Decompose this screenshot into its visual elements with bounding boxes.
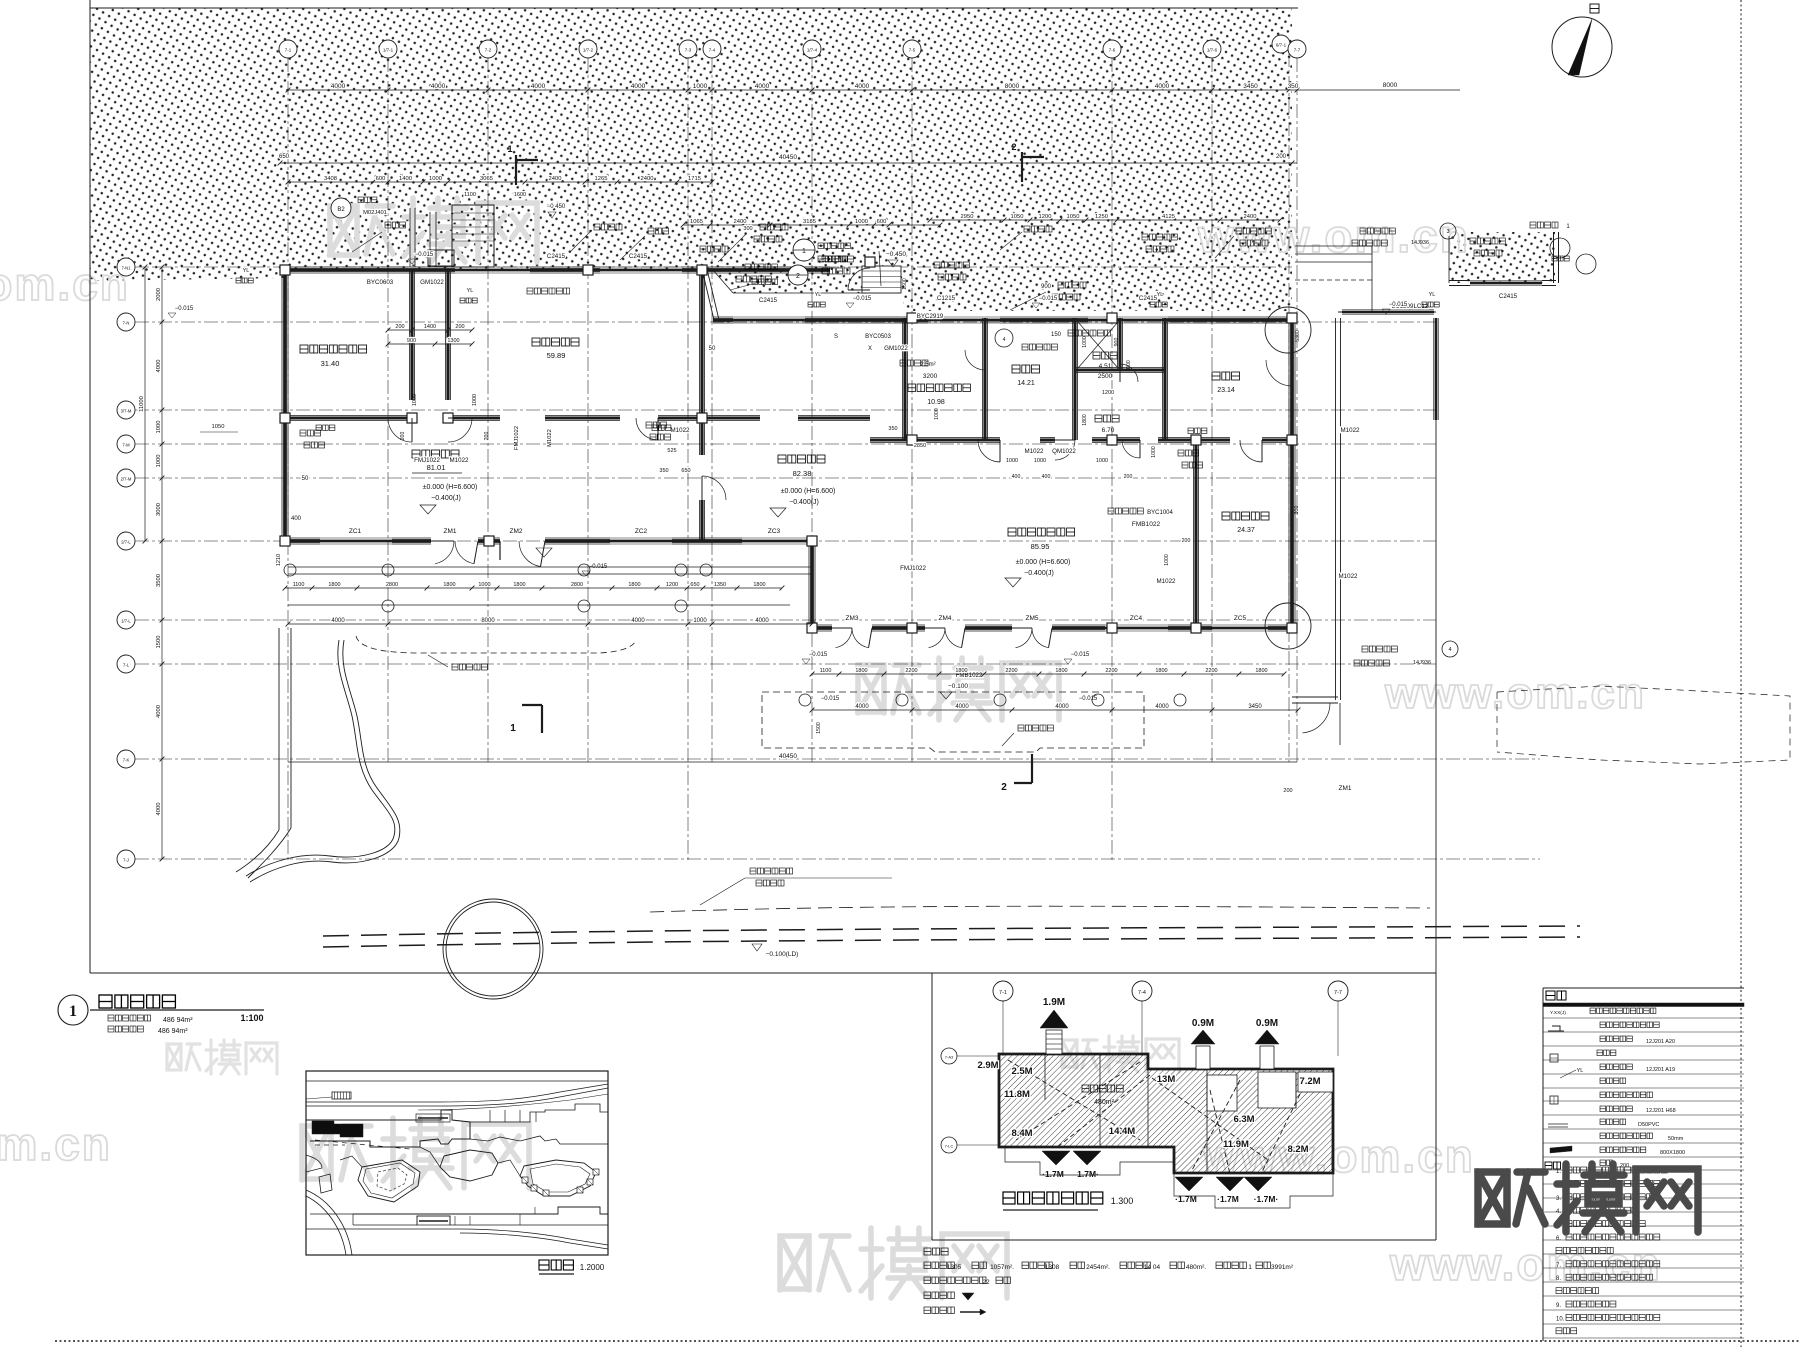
svg-text:2200: 2200 bbox=[1105, 668, 1117, 674]
site plan bottom road curves bbox=[460, 1229, 608, 1245]
svg-text:ZM2: ZM2 bbox=[510, 528, 523, 535]
watermark omwang near title bbox=[167, 1040, 277, 1074]
roof projection label right bbox=[1018, 725, 1053, 731]
svg-text:200: 200 bbox=[1276, 154, 1287, 160]
svg-text:GM1022: GM1022 bbox=[884, 345, 908, 352]
svg-text:1/7-2: 1/7-2 bbox=[583, 48, 594, 53]
svg-text:FMJ1022: FMJ1022 bbox=[514, 426, 520, 450]
svg-text:6.3M: 6.3M bbox=[1233, 1114, 1254, 1125]
left vertical dim 11000 bbox=[144, 267, 146, 541]
svg-text:2800: 2800 bbox=[386, 582, 398, 588]
fire diagram frame bbox=[931, 973, 933, 1240]
svg-text:4: 4 bbox=[1448, 647, 1451, 653]
svg-text:11.8M: 11.8M bbox=[1004, 1089, 1030, 1100]
south wall left block with windows and doors bbox=[285, 537, 320, 539]
annotation deformation joint 4 lower bbox=[1362, 646, 1397, 652]
svg-text:11.9M: 11.9M bbox=[1223, 1139, 1249, 1150]
vestibule detail bubbles bbox=[793, 239, 815, 261]
site plan dashed strip bbox=[315, 1140, 410, 1149]
svg-text:40450: 40450 bbox=[779, 753, 797, 760]
svg-text:M1022: M1022 bbox=[450, 457, 469, 464]
top dimension chain 4000s bbox=[288, 89, 1297, 91]
svg-text:486 94m²: 486 94m² bbox=[163, 1017, 193, 1024]
svg-text:1000: 1000 bbox=[1006, 458, 1018, 464]
svg-text:3.: 3. bbox=[1556, 1196, 1561, 1202]
svg-text:FMJ1022: FMJ1022 bbox=[900, 565, 926, 572]
watermark omwang bottom center bbox=[780, 1228, 1007, 1298]
svg-text:7-7: 7-7 bbox=[1334, 990, 1342, 996]
watermark omwang fire diagram bbox=[1062, 1036, 1179, 1072]
svg-text:2.5m²: 2.5m² bbox=[920, 362, 935, 368]
detail circle top-right corner bbox=[1265, 307, 1311, 353]
pocket alcove walls bbox=[1449, 280, 1470, 282]
svg-text:6.: 6. bbox=[1556, 1236, 1561, 1242]
svg-text:900: 900 bbox=[407, 338, 416, 344]
svg-text:1/7-4: 1/7-4 bbox=[807, 48, 818, 53]
svg-text:1800: 1800 bbox=[628, 582, 640, 588]
svg-text:−0 450: −0 450 bbox=[547, 204, 566, 210]
svg-text:7-LC: 7-LC bbox=[945, 1144, 954, 1149]
svg-text:B2: B2 bbox=[337, 207, 345, 213]
watermark omwang top left bbox=[330, 198, 537, 262]
svg-text:8000: 8000 bbox=[481, 618, 495, 624]
svg-text:M1022: M1022 bbox=[547, 429, 553, 447]
elevator shaft X brace bbox=[1078, 322, 1118, 368]
svg-text:7-4: 7-4 bbox=[709, 48, 716, 53]
svg-text:400: 400 bbox=[1012, 474, 1021, 480]
svg-text:2500: 2500 bbox=[1098, 373, 1113, 380]
svg-text:2400: 2400 bbox=[734, 219, 747, 225]
svg-text:7-1: 7-1 bbox=[285, 48, 292, 53]
svg-text:4000: 4000 bbox=[855, 704, 869, 710]
svg-text:ZC2: ZC2 bbox=[635, 528, 648, 535]
svg-text:6/7-1: 6/7-1 bbox=[1276, 43, 1287, 48]
svg-text:3450: 3450 bbox=[1248, 704, 1262, 710]
porch steps left block bbox=[288, 566, 812, 568]
svg-text:1.9M: 1.9M bbox=[1043, 997, 1065, 1008]
annotation vent 2.5 bbox=[900, 360, 928, 366]
south wall right block with doors/windows bbox=[812, 624, 832, 626]
svg-text:1500: 1500 bbox=[156, 636, 162, 649]
svg-text:C2415: C2415 bbox=[759, 297, 778, 304]
svg-text:7-A3: 7-A3 bbox=[945, 1055, 954, 1060]
interior vertical wall ticket office right bbox=[699, 270, 701, 455]
door M1022 corridor bbox=[448, 418, 472, 442]
earth hatch area top-left bbox=[90, 8, 1292, 311]
svg-text:7-1: 7-1 bbox=[999, 990, 1007, 996]
svg-text:200: 200 bbox=[400, 432, 406, 441]
svg-text:350: 350 bbox=[1288, 83, 1299, 90]
doors ZM3 ZM4 ZM5 double leaves bbox=[836, 628, 853, 648]
svg-text:50: 50 bbox=[709, 346, 716, 352]
svg-text:22: 22 bbox=[982, 1279, 990, 1286]
svg-text:M1022: M1022 bbox=[671, 427, 690, 434]
room label card office 24.37 bbox=[1222, 512, 1269, 520]
svg-text:4125: 4125 bbox=[1162, 214, 1175, 220]
fire diagram notes bbox=[924, 1248, 948, 1255]
svg-text:1000: 1000 bbox=[1151, 446, 1157, 458]
svg-text:−0.450: −0.450 bbox=[886, 251, 906, 258]
svg-text:M1022: M1022 bbox=[1157, 578, 1176, 585]
dashed plot boundary right bbox=[1496, 692, 1498, 752]
detail bubble B2 stair bbox=[331, 198, 351, 218]
section mark 1 top bbox=[516, 155, 538, 185]
columns at intersections bbox=[280, 413, 290, 423]
sheet border right dotted bbox=[1740, 0, 1742, 1347]
svg-text:GM1022: GM1022 bbox=[420, 279, 444, 286]
svg-text:1800: 1800 bbox=[513, 582, 525, 588]
svg-text:2200: 2200 bbox=[905, 668, 917, 674]
small room doors bbox=[1120, 364, 1138, 382]
svg-text:7-N1: 7-N1 bbox=[121, 266, 131, 271]
svg-text:200: 200 bbox=[1283, 788, 1292, 794]
svg-text:−0.400(J): −0.400(J) bbox=[1024, 570, 1054, 577]
site plan upper slab outline bbox=[306, 1110, 470, 1147]
svg-text:−0.015: −0.015 bbox=[415, 252, 434, 258]
svg-text:1050: 1050 bbox=[1011, 214, 1024, 220]
svg-text:7-2: 7-2 bbox=[485, 48, 492, 53]
fire zone inner walls bbox=[1044, 1054, 1046, 1100]
svg-text:www.om.cn: www.om.cn bbox=[0, 1118, 112, 1170]
svg-text:23.14: 23.14 bbox=[1217, 387, 1235, 394]
annotation deformation joint 3 bbox=[1360, 228, 1395, 234]
svg-text:QM1022: QM1022 bbox=[1052, 448, 1076, 455]
svg-text:4000: 4000 bbox=[855, 83, 870, 90]
sheet border left bbox=[89, 0, 91, 973]
stair vestibule at north wall bbox=[452, 205, 494, 267]
drawing title circle 1 bbox=[58, 995, 88, 1025]
svg-text:2/7-L: 2/7-L bbox=[121, 540, 131, 545]
svg-text:D50PVC: D50PVC bbox=[1638, 1122, 1659, 1128]
svg-text:650: 650 bbox=[279, 154, 290, 160]
svg-text:−0.015: −0.015 bbox=[853, 296, 872, 302]
svg-text:2800: 2800 bbox=[571, 582, 583, 588]
room label ticket office 59.89 bbox=[532, 338, 579, 346]
svg-text:7.2M: 7.2M bbox=[1299, 1076, 1320, 1087]
svg-text:300: 300 bbox=[1294, 506, 1300, 515]
svg-text:650: 650 bbox=[681, 468, 690, 474]
svg-text:14 04: 14 04 bbox=[1144, 1264, 1161, 1271]
extra annotation clusters in hatch bbox=[594, 224, 622, 230]
svg-text:−0.015: −0.015 bbox=[809, 652, 828, 658]
svg-text:1600: 1600 bbox=[514, 192, 526, 198]
door to office82 M1022 bbox=[702, 476, 726, 500]
svg-text:M1022: M1022 bbox=[1025, 448, 1044, 455]
svg-text:7-K: 7-K bbox=[123, 758, 130, 763]
canopy dashed outline south right block bbox=[762, 692, 1144, 752]
svg-text:1: 1 bbox=[510, 723, 516, 734]
svg-text:7-M: 7-M bbox=[122, 443, 130, 448]
svg-text:10.98: 10.98 bbox=[927, 399, 945, 406]
svg-text:BYC0603: BYC0603 bbox=[367, 279, 394, 286]
svg-text:200: 200 bbox=[484, 432, 490, 441]
fire zone id label bbox=[1082, 1085, 1123, 1092]
title area texts bbox=[108, 1015, 151, 1021]
east wing window LC1209 bbox=[1342, 311, 1434, 313]
svg-text:400: 400 bbox=[291, 516, 302, 522]
fire escape arrows down right bbox=[1175, 1177, 1203, 1191]
door M1022 mid bbox=[636, 418, 658, 440]
svg-text:480m²: 480m² bbox=[1094, 1099, 1115, 1106]
fire zone hatched polygon bbox=[999, 1054, 1333, 1173]
svg-text:1.300: 1.300 bbox=[1111, 1196, 1134, 1206]
index site plan box bbox=[306, 1071, 608, 1255]
doors ZM1 double bbox=[435, 541, 454, 564]
svg-text:1/7-6: 1/7-6 bbox=[1207, 48, 1218, 53]
svg-text:3: 3 bbox=[1446, 229, 1449, 235]
svg-text:8.2M: 8.2M bbox=[1287, 1144, 1308, 1155]
svg-text:BYC0503: BYC0503 bbox=[865, 334, 891, 340]
svg-text:7-L: 7-L bbox=[123, 663, 130, 668]
svg-text:·1.7M: ·1.7M bbox=[1175, 1194, 1197, 1204]
svg-text:www.om.cn: www.om.cn bbox=[1384, 669, 1646, 718]
door FMJ1022 bbox=[388, 418, 412, 442]
svg-text:1715: 1715 bbox=[688, 176, 701, 182]
svg-text:·1.7M: ·1.7M bbox=[1042, 1169, 1064, 1179]
vestibule dim chain bbox=[683, 224, 940, 226]
svg-text:14J936: 14J936 bbox=[1411, 240, 1429, 246]
svg-text:3200: 3200 bbox=[923, 373, 938, 380]
svg-text:900: 900 bbox=[1114, 338, 1120, 347]
site plan connecting walk bbox=[420, 1147, 440, 1167]
svg-text:−0.015: −0.015 bbox=[1071, 652, 1090, 658]
top-right canopy lines bbox=[1295, 245, 1372, 247]
svg-text:31.40: 31.40 bbox=[321, 359, 340, 368]
svg-text:1100: 1100 bbox=[820, 668, 832, 674]
fire zone vent shafts top bbox=[1046, 1030, 1062, 1054]
svg-text:−0.015: −0.015 bbox=[821, 696, 840, 702]
svg-text:350: 350 bbox=[888, 426, 897, 432]
svg-text:85.95: 85.95 bbox=[1031, 542, 1050, 551]
right block room partitions bbox=[902, 318, 904, 440]
doors right block interior bbox=[978, 440, 1000, 462]
svg-text:1.2000: 1.2000 bbox=[580, 1263, 605, 1272]
fire zone bottom porch outline bbox=[1005, 1147, 1174, 1175]
svg-text:2950: 2950 bbox=[961, 214, 974, 220]
svg-text:82.38: 82.38 bbox=[793, 469, 812, 478]
fire escape arrows up bbox=[1040, 1010, 1068, 1028]
svg-text:1000: 1000 bbox=[156, 455, 162, 468]
door at east corridor bbox=[1266, 360, 1292, 386]
svg-text:7-4: 7-4 bbox=[1138, 990, 1146, 996]
roof projection dashed line left porch bbox=[356, 636, 636, 653]
svg-text:0.9M: 0.9M bbox=[1256, 1018, 1278, 1029]
svg-text:·1.7M·: ·1.7M· bbox=[1254, 1194, 1279, 1204]
svg-text:4000: 4000 bbox=[156, 803, 162, 816]
svg-text:4000: 4000 bbox=[1155, 83, 1170, 90]
interior wall left block horizontal bbox=[285, 415, 412, 417]
svg-text:C2415: C2415 bbox=[629, 253, 648, 260]
svg-text:1800: 1800 bbox=[443, 582, 455, 588]
misc leader annotations bbox=[385, 222, 406, 228]
svg-text:7-J: 7-J bbox=[123, 858, 129, 863]
svg-text:−0.015: −0.015 bbox=[175, 306, 194, 312]
west wall bbox=[281, 270, 283, 541]
interior vertical wall storage right bbox=[409, 270, 411, 400]
sheet border bottom dotted bbox=[55, 1340, 1800, 1342]
east corridor wall bbox=[1335, 318, 1337, 700]
card office wall bbox=[1193, 440, 1195, 628]
site plan left pentagon double outline bbox=[358, 1160, 420, 1202]
svg-text:ZM5: ZM5 bbox=[1026, 615, 1039, 622]
svg-text:1000: 1000 bbox=[1034, 458, 1046, 464]
svg-text:400: 400 bbox=[1042, 474, 1051, 480]
hatch pocket right of building bbox=[1449, 232, 1555, 283]
svg-text:3065: 3065 bbox=[480, 176, 493, 182]
svg-text:BYC2919: BYC2919 bbox=[917, 313, 944, 320]
svg-text:2.5M: 2.5M bbox=[1011, 1066, 1032, 1077]
svg-text:10.: 10. bbox=[1556, 1316, 1565, 1322]
site plan inner court lines bbox=[416, 1114, 450, 1122]
svg-text:1:100: 1:100 bbox=[240, 1013, 263, 1023]
svg-text:900: 900 bbox=[1041, 284, 1052, 290]
svg-text:59.89: 59.89 bbox=[547, 351, 566, 360]
svg-text:0.9M: 0.9M bbox=[1192, 1018, 1214, 1029]
site plan bottom grill bbox=[417, 1216, 450, 1225]
left vertical dim chain bbox=[161, 267, 163, 859]
svg-text:1000: 1000 bbox=[412, 394, 418, 406]
svg-text:8.4M: 8.4M bbox=[1011, 1128, 1032, 1139]
svg-text:Y.XX(J): Y.XX(J) bbox=[1550, 1010, 1566, 1016]
svg-text:1400: 1400 bbox=[399, 176, 412, 182]
svg-text:480m².: 480m². bbox=[1186, 1264, 1206, 1271]
svg-text:50: 50 bbox=[302, 476, 309, 482]
top detail dimension chain bbox=[288, 181, 712, 183]
svg-text:1000: 1000 bbox=[1164, 554, 1170, 566]
svg-text:−0.100: −0.100 bbox=[948, 683, 968, 690]
site plan left fan curves bbox=[306, 1190, 352, 1255]
room label storage 31.40 bbox=[300, 345, 367, 353]
svg-text:1200: 1200 bbox=[666, 582, 678, 588]
svg-text:2400: 2400 bbox=[641, 176, 654, 182]
svg-text:2000: 2000 bbox=[1126, 360, 1132, 372]
door ZM2 bbox=[519, 541, 541, 567]
svg-text:−0.100(LD): −0.100(LD) bbox=[766, 951, 799, 958]
svg-text:1350: 1350 bbox=[714, 582, 726, 588]
north arrow bbox=[1552, 17, 1612, 77]
svg-text:1800: 1800 bbox=[328, 582, 340, 588]
site plan center blob bbox=[440, 1150, 498, 1181]
svg-text:4000: 4000 bbox=[331, 83, 346, 90]
bottom dim chain right block axes bbox=[812, 709, 1298, 711]
svg-text:1000: 1000 bbox=[429, 176, 442, 182]
fire diagram axis bubbles bbox=[993, 981, 1013, 1001]
svg-text:FMJ1022: FMJ1022 bbox=[414, 457, 440, 464]
svg-text:YL: YL bbox=[243, 268, 250, 274]
curved landscape path left bbox=[246, 640, 395, 876]
svg-text:1800: 1800 bbox=[1255, 668, 1267, 674]
svg-text:YL: YL bbox=[1429, 292, 1436, 298]
svg-text:3408: 3408 bbox=[324, 176, 337, 182]
svg-text:11000: 11000 bbox=[139, 396, 145, 412]
svg-text:1800: 1800 bbox=[855, 668, 867, 674]
leader ditch annotation bbox=[700, 878, 745, 905]
svg-text:1050: 1050 bbox=[1067, 214, 1080, 220]
bottom dim chain right block detail bbox=[812, 673, 1284, 675]
svg-text:2400: 2400 bbox=[1244, 214, 1257, 220]
site plan right pentagon with squares bbox=[520, 1160, 596, 1196]
site plan grill top-left bbox=[332, 1092, 351, 1099]
svg-text:8000: 8000 bbox=[1005, 83, 1020, 90]
svg-text:ZM4: ZM4 bbox=[939, 615, 952, 622]
svg-text:7.: 7. bbox=[1556, 1263, 1561, 1269]
svg-text:−0.015: −0.015 bbox=[1389, 302, 1408, 308]
site plan bottom slab bbox=[353, 1207, 608, 1214]
svg-text:6.70: 6.70 bbox=[1102, 427, 1115, 434]
svg-text:1000: 1000 bbox=[156, 421, 162, 434]
drawing title first floor plan bbox=[99, 995, 175, 1008]
svg-text:300: 300 bbox=[743, 226, 752, 232]
svg-text:S: S bbox=[834, 334, 838, 340]
svg-text:1308: 1308 bbox=[1045, 1264, 1060, 1271]
svg-text:7-6: 7-6 bbox=[1109, 48, 1116, 53]
svg-text:40450: 40450 bbox=[779, 154, 797, 161]
svg-text:YL: YL bbox=[467, 288, 474, 294]
svg-text:4.51: 4.51 bbox=[1099, 363, 1112, 370]
fire escape arrows down left bbox=[1042, 1151, 1070, 1165]
svg-text:ZM1: ZM1 bbox=[1339, 785, 1352, 792]
landscape circle bbox=[443, 899, 543, 999]
door top vestibule bbox=[848, 268, 870, 290]
vestibule court diagonal bbox=[702, 269, 714, 320]
svg-text:12J201 A20: 12J201 A20 bbox=[1646, 1039, 1675, 1045]
svg-text:3/7-M: 3/7-M bbox=[121, 409, 132, 414]
svg-text:200: 200 bbox=[1182, 538, 1191, 544]
top overall dimension 40450 bbox=[280, 162, 1297, 164]
svg-text:1000: 1000 bbox=[855, 219, 868, 225]
svg-text:M1022: M1022 bbox=[1341, 427, 1360, 434]
bottom overall 40450 bbox=[288, 761, 1297, 763]
room label office 14.21 bbox=[1012, 365, 1040, 373]
fire escape dashed routes bbox=[1008, 1060, 1140, 1140]
svg-text:200: 200 bbox=[455, 324, 464, 330]
annotation 150 concrete bbox=[995, 329, 1013, 347]
svg-text:13M: 13M bbox=[1157, 1074, 1176, 1085]
svg-text:1000: 1000 bbox=[934, 408, 940, 420]
site plan label bbox=[539, 1260, 573, 1270]
svg-text:YL: YL bbox=[1157, 292, 1164, 298]
svg-text:BYC1004: BYC1004 bbox=[1147, 510, 1173, 516]
detail circle bottom-right corner bbox=[1265, 603, 1311, 649]
svg-text:1305: 1305 bbox=[947, 1264, 962, 1271]
svg-text:−0.015: −0.015 bbox=[1079, 696, 1098, 702]
svg-text:1000: 1000 bbox=[693, 83, 708, 90]
svg-text:M1022: M1022 bbox=[1339, 573, 1358, 580]
site plan small quad bbox=[319, 1174, 332, 1193]
svg-text:ZM3: ZM3 bbox=[846, 615, 859, 622]
watermark omwang center bbox=[858, 658, 1059, 720]
svg-text:1.: 1. bbox=[1556, 1169, 1561, 1175]
svg-text:50mm: 50mm bbox=[1668, 1136, 1684, 1142]
svg-text:M02J401: M02J401 bbox=[363, 210, 387, 216]
svg-text:4000: 4000 bbox=[631, 83, 646, 90]
svg-text:3185: 3185 bbox=[803, 219, 816, 225]
svg-text:1000: 1000 bbox=[1096, 458, 1108, 464]
svg-text:1100: 1100 bbox=[464, 192, 476, 198]
svg-text:12J201 A19: 12J201 A19 bbox=[1646, 1067, 1675, 1073]
svg-text:1800: 1800 bbox=[1155, 668, 1167, 674]
room label low voltage 6.70 bbox=[1095, 415, 1119, 422]
svg-text:1057m².: 1057m². bbox=[990, 1264, 1014, 1271]
svg-text:2.9M: 2.9M bbox=[977, 1060, 998, 1071]
svg-text:7-7: 7-7 bbox=[1294, 48, 1301, 53]
svg-text:81.01: 81.01 bbox=[427, 463, 446, 472]
dashed road lines bbox=[323, 926, 1580, 936]
room label ticket office2 82.38 bbox=[778, 455, 825, 463]
site plan upper-right footprint bbox=[470, 1104, 608, 1144]
svg-text:1000: 1000 bbox=[693, 618, 707, 624]
svg-text:1: 1 bbox=[69, 1003, 77, 1020]
